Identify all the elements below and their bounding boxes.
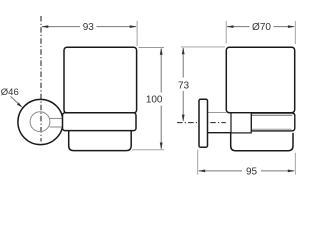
dimension Ø70 right arrow: [288, 25, 295, 28]
svg-text:Ø70: Ø70: [252, 22, 271, 33]
dimension 100 bottom arrow: [160, 143, 163, 150]
dimension Ø70 left arrow: [227, 25, 234, 28]
extension line top of 100: [139, 47, 165, 49]
ring inner lip bottom (side view): [251, 128, 291, 130]
centerline vertical (front view mount axis): [40, 16, 42, 142]
extension line left of Ø70: [225, 21, 227, 44]
holder ring (front view): [63, 113, 137, 131]
arm bottom edge (side view): [208, 132, 232, 134]
svg-text:95: 95: [246, 167, 258, 178]
dimension 93 left arrow: [41, 25, 48, 28]
extension line right of 93: [136, 21, 138, 46]
extension line right of Ø70: [294, 21, 296, 44]
dimension 73 top arrow: [182, 47, 185, 54]
holder ring band (side view): [251, 113, 295, 131]
ring inner lip top (side view): [251, 114, 292, 116]
extension line left of 95: [197, 150, 199, 175]
dimension 73 line: [182, 48, 184, 78]
dimension 100 top arrow: [160, 48, 163, 55]
dimension 73 bottom arrow: [182, 115, 185, 122]
dimension 93 line: [42, 26, 80, 28]
dimension 95 line: [199, 170, 242, 172]
neck (front view): [50, 117, 64, 119]
extension line bottom of 100: [132, 149, 164, 151]
arm top edge (side view): [208, 112, 227, 114]
mount hub inner circle (front view): [30, 112, 50, 132]
glass body (front view): [64, 47, 137, 113]
glass bottom (front view): [69, 131, 132, 151]
leader Ø46 arrowhead: [17, 103, 23, 108]
svg-text:100: 100: [146, 95, 163, 106]
svg-text:93: 93: [83, 22, 95, 33]
extension line right of 95: [294, 153, 296, 175]
dimension 95 right arrow: [288, 170, 295, 173]
leader Ø46 line: [11, 96, 21, 105]
dimension 100 line: [160, 49, 162, 93]
glass body (side view): [226, 47, 294, 113]
svg-text:73: 73: [178, 81, 190, 92]
wall plate (side view): [199, 99, 208, 147]
centerline horizontal (side view arm axis): [177, 122, 226, 124]
glass bottom (side view): [231, 133, 293, 151]
dimension 93 right arrow: [130, 25, 137, 28]
hub block (side view): [231, 113, 251, 133]
svg-text:Ø46: Ø46: [1, 87, 19, 98]
dimension Ø70 line: [227, 26, 250, 28]
dimension 95 left arrow: [198, 170, 205, 173]
mount circle outer (front view): [18, 99, 63, 144]
extension line top of 73: [181, 46, 225, 48]
